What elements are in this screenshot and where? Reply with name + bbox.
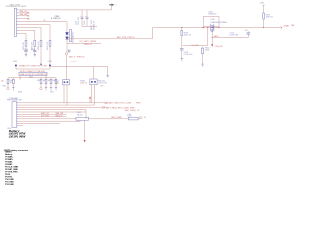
svg-text:+: + <box>85 16 86 18</box>
ground right of sense rail <box>107 66 109 75</box>
battery caption <box>9 129 27 138</box>
svg-text:P12 GND: P12 GND <box>5 184 14 186</box>
wire pin8 <box>18 31 35 38</box>
svg-text:R305 4.7K: R305 4.7K <box>47 41 49 50</box>
svg-text:BATT_ID: BATT_ID <box>56 114 64 117</box>
svg-text:10UF 25V: 10UF 25V <box>78 16 80 25</box>
svg-text:PWR HEADER 11P: PWR HEADER 11P <box>7 99 23 102</box>
svg-text:THRM_IN: THRM_IN <box>84 44 93 46</box>
capacitor C302 <box>84 10 88 26</box>
svg-text:R308: R308 <box>18 91 22 93</box>
svg-text:PWR HEADER 9P (302P): PWR HEADER 9P (302P) <box>6 5 27 8</box>
wire pin6 <box>18 25 50 38</box>
wire pin1 rail A <box>18 9 112 11</box>
wire rail Y1 <box>16 68 50 70</box>
svg-text:D301 BAT54C: D301 BAT54C <box>72 31 75 43</box>
resistor R313 top right <box>259 3 273 27</box>
svg-text:10K: 10K <box>10 82 13 84</box>
svg-text:PACK_VOLT: PACK_VOLT <box>90 19 93 30</box>
svg-text:SMB_DAT: SMB_DAT <box>20 13 28 16</box>
wire sub-rail 2 <box>183 27 208 46</box>
fuse F301 <box>18 112 147 120</box>
resistor R311 <box>50 78 56 91</box>
connector J303 <box>12 102 18 128</box>
svg-text:BATT_PRES_L: BATT_PRES_L <box>125 109 137 112</box>
svg-text:SENSE_IN: SENSE_IN <box>94 20 96 30</box>
svg-text:NTC_BATT_THERM: NTC_BATT_THERM <box>80 40 97 43</box>
svg-text:RS302: RS302 <box>80 81 85 83</box>
svg-text:VG_SRC: VG_SRC <box>192 45 200 47</box>
power flag PWR1 <box>109 4 117 10</box>
svg-text:PWR: PWR <box>136 103 141 105</box>
svg-text:10K: 10K <box>1 80 4 82</box>
wire batt pin4 <box>18 109 86 111</box>
svg-text:R304 4.7K: R304 4.7K <box>38 41 40 50</box>
svg-text:BATT_P: BATT_P <box>69 56 76 59</box>
wire rail C to charger <box>67 28 280 39</box>
gate wire and flag <box>211 30 223 48</box>
net flag down <box>84 120 86 142</box>
svg-text:WSL2512: WSL2512 <box>98 81 105 83</box>
resistor R304 <box>38 38 42 64</box>
svg-text:+VBAT: +VBAT <box>283 24 290 27</box>
svg-text:0.1UF 25V: 0.1UF 25V <box>184 54 193 56</box>
capacitor C316 <box>180 28 193 62</box>
svg-text:RS1: RS1 <box>56 81 59 83</box>
svg-text:C303: C303 <box>24 49 28 51</box>
box U310 <box>203 17 219 27</box>
svg-text:GATE: GATE <box>214 35 220 38</box>
wire batt pin10 <box>18 123 60 125</box>
svg-text:NOTE: CONNECT TO THE UNIT: NOTE: CONNECT TO THE UNIT <box>20 71 45 73</box>
svg-text:SMB CLK DAT SYS_PRESENT BT: SMB CLK DAT SYS_PRESENT BT <box>20 73 46 76</box>
junction column <box>85 110 87 119</box>
resistor R307 <box>3 78 15 91</box>
svg-text:(301P) 96W: (301P) 96W <box>9 134 27 138</box>
svg-text:BATT_PWR_CONN 5V: BATT_PWR_CONN 5V <box>117 36 135 39</box>
net pad column R304 <box>40 64 42 66</box>
wire pin7 <box>18 28 41 38</box>
capacitor C303 plates and ground <box>24 51 27 52</box>
wire batt pin9 <box>18 120 81 122</box>
wire batt rail 1 <box>18 102 104 104</box>
svg-text:R307: R307 <box>3 86 7 88</box>
svg-text:100K 5%: 100K 5% <box>266 17 274 19</box>
wire pin2 no-connect <box>18 11 29 13</box>
resistor R302 <box>23 38 27 50</box>
dual diode D301 <box>65 22 74 53</box>
resistor R306 <box>1 78 13 90</box>
svg-text:C304: C304 <box>31 49 35 51</box>
svg-text:3A 32V: 3A 32V <box>77 113 83 116</box>
net label +VBAT right <box>281 24 295 28</box>
svg-text:BAT: BAT <box>291 24 294 27</box>
wire batt pin6 <box>18 113 66 115</box>
svg-text:CHARGING BYPASS: CHARGING BYPASS <box>211 21 228 24</box>
wire pin5 no-connect <box>18 21 67 23</box>
svg-text:R312: R312 <box>50 91 54 93</box>
capacitor C301 <box>75 10 83 26</box>
wire box stubs <box>20 76 46 78</box>
svg-text:R309: R309 <box>37 80 41 82</box>
pin table rows <box>5 152 18 187</box>
resistor R305 <box>47 38 51 65</box>
wire cap bottom rail <box>82 25 97 27</box>
svg-text:U310: U310 <box>211 19 215 21</box>
wire batt pin2 <box>18 104 94 106</box>
wire sub-rail gate divider <box>212 34 248 37</box>
wire rail Y2 <box>8 77 56 79</box>
capacitor C304 plates and ground <box>33 51 36 52</box>
wire batt rail 3 <box>18 106 102 108</box>
svg-text:BATT_PACK_POS_CONN: BATT_PACK_POS_CONN <box>109 102 132 105</box>
wire rail D stub <box>67 42 101 44</box>
stub and label <box>19 78 21 80</box>
svg-text:0.1UF 16V: 0.1UF 16V <box>230 35 239 37</box>
svg-text:PWR: PWR <box>130 107 135 109</box>
wire pin3 no-connect <box>18 13 29 16</box>
note box U302 <box>19 72 47 75</box>
svg-text:100K 5%: 100K 5% <box>184 35 192 37</box>
svg-text:SIGNALS OF CONNECTED TO THE: SIGNALS OF CONNECTED TO THE <box>19 65 48 68</box>
svg-text:0.005 1%: 0.005 1% <box>80 83 87 85</box>
mosfet Q310 symbol <box>203 24 220 33</box>
wire pin4 rail B <box>18 18 28 20</box>
svg-text:BATT_PACK_NEG_CONN: BATT_PACK_NEG_CONN <box>106 106 129 109</box>
wire batt pin5 <box>18 111 86 113</box>
resistor R310 <box>45 78 50 91</box>
svg-text:.005 1% 1W: .005 1% 1W <box>98 83 107 85</box>
wire to sense area <box>50 65 108 67</box>
sense resistor RS301 <box>56 55 70 105</box>
svg-text:R306: R306 <box>10 80 14 82</box>
svg-text:CHG_EN: CHG_EN <box>215 46 223 48</box>
svg-text:R303 10K: R303 10K <box>32 41 34 50</box>
sense resistor RS302 <box>80 66 107 105</box>
svg-text:PRES_IN: PRES_IN <box>77 57 85 59</box>
svg-text:C302: C302 <box>84 21 86 25</box>
svg-text:SYS_PRS: SYS_PRS <box>41 115 50 117</box>
resistor R303 <box>32 38 36 50</box>
svg-text:.005: .005 <box>56 83 59 85</box>
svg-text:R302 10K: R302 10K <box>23 41 25 50</box>
svg-text:SI4435DY: SI4435DY <box>208 14 217 16</box>
svg-text:B_PRES_IN: B_PRES_IN <box>51 18 61 20</box>
net flag up <box>89 96 91 102</box>
wire pin9 <box>18 34 26 39</box>
resistor R312 <box>50 78 57 94</box>
svg-text:10K: 10K <box>48 80 51 82</box>
node BATT_SENSE circle <box>65 50 85 63</box>
svg-text:+V3S: +V3S <box>259 3 264 5</box>
svg-text:x xx xxx x: x xx xxx x <box>70 61 77 63</box>
svg-text:PACK_THRM: PACK_THRM <box>111 116 122 119</box>
off-page arrow <box>105 102 108 104</box>
resistor R309 <box>37 78 45 90</box>
transistor Q311 <box>201 47 210 67</box>
svg-text:SMB_CLK: SMB_CLK <box>20 11 29 13</box>
connector J301 <box>14 8 18 36</box>
wire batt pin7 <box>18 116 66 118</box>
